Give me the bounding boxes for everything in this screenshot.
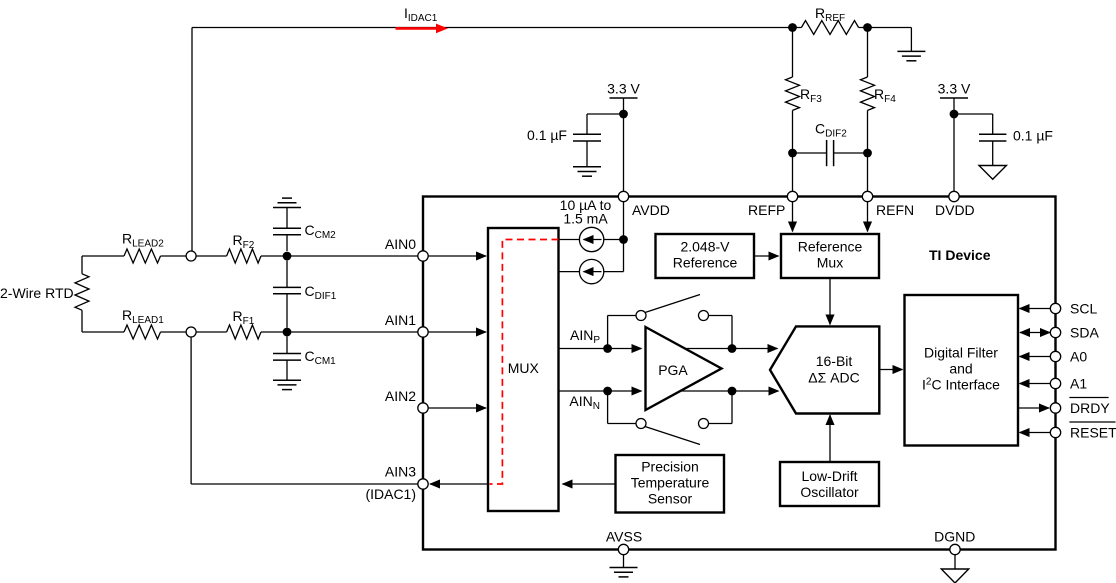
node REFP top junction xyxy=(788,23,797,32)
capacitor C_DIF2 xyxy=(793,152,827,154)
svg-text:A1: A1 xyxy=(1070,375,1087,391)
pin RESET xyxy=(1050,427,1060,437)
svg-text:RF1: RF1 xyxy=(233,308,255,327)
capacitor C_CM1 xyxy=(286,336,288,353)
svg-text:RF3: RF3 xyxy=(800,86,822,105)
wire RESET xyxy=(1020,432,1051,434)
svg-text:AIN3: AIN3 xyxy=(385,463,416,479)
resistor R_F1 xyxy=(227,325,261,339)
wire RF1 to AIN1 pin xyxy=(261,331,418,333)
svg-text:Precision: Precision xyxy=(641,459,699,475)
pin AIN0 xyxy=(418,251,428,261)
wire current sources to AVDD xyxy=(604,239,624,241)
pin AVSS xyxy=(618,544,628,554)
svg-text:16-Bit: 16-Bit xyxy=(816,353,853,369)
arrow reference to refmux xyxy=(755,255,779,257)
svg-text:Low-Drift: Low-Drift xyxy=(801,468,857,484)
pin REFN xyxy=(862,191,872,201)
svg-text:1.5 mA: 1.5 mA xyxy=(563,211,608,227)
svg-text:CDIF2: CDIF2 xyxy=(815,121,847,140)
TI device outline box xyxy=(423,197,1056,550)
svg-text:AINP: AINP xyxy=(570,327,600,346)
wire SDA bidirectional xyxy=(1020,332,1050,334)
pin DGND xyxy=(950,544,960,554)
svg-text:RF4: RF4 xyxy=(874,86,896,105)
wire A1 xyxy=(1020,383,1051,385)
op-amp PGA xyxy=(646,327,722,410)
capacitor C_CM2 xyxy=(286,235,288,251)
resistor R_LEAD1 xyxy=(124,325,161,339)
pin A0 xyxy=(1050,351,1060,361)
svg-text:AINN: AINN xyxy=(569,393,600,412)
node CDIF2 left xyxy=(788,149,797,158)
current source IDAC1 xyxy=(559,239,580,241)
arrow oscillator to ADC xyxy=(829,415,831,462)
node AVDD bypass xyxy=(619,110,628,119)
svg-text:DGND: DGND xyxy=(934,529,975,545)
resistor R_LEAD2 xyxy=(124,249,161,263)
3.3V supply DVDD xyxy=(953,98,955,191)
pin REFP xyxy=(787,191,797,201)
switch bottom-left xyxy=(607,391,609,424)
node CCM2 junction xyxy=(283,252,292,261)
pin AIN2 xyxy=(418,403,428,413)
capacitor C_DIF1 xyxy=(286,260,288,287)
wire MUX AINP to PGA xyxy=(559,348,642,350)
pin AIN1 xyxy=(418,327,428,337)
3.3V supply AVDD xyxy=(623,98,625,114)
wire to top-right ground xyxy=(859,27,912,29)
2-Wire RTD resistor xyxy=(81,256,83,274)
svg-text:Reference: Reference xyxy=(673,255,738,271)
svg-text:REFN: REFN xyxy=(876,202,914,218)
svg-text:TI Device: TI Device xyxy=(929,247,991,263)
wire AIN2 to MUX xyxy=(428,407,486,409)
ground AVDD cap xyxy=(573,166,601,168)
wire RLEAD1 to junction xyxy=(161,331,186,333)
junction node AIN1 ext xyxy=(186,327,196,337)
arrow REFP to Reference Mux xyxy=(792,202,794,232)
resistor R_F4 xyxy=(867,28,869,78)
svg-text:0.1 µF: 0.1 µF xyxy=(527,127,567,143)
svg-text:DVDD: DVDD xyxy=(935,202,975,218)
wire RTD top to RLEAD2 xyxy=(82,255,124,257)
svg-text:(IDAC1): (IDAC1) xyxy=(365,486,416,502)
block Reference Mux xyxy=(781,234,879,278)
arrow sensor to MUX xyxy=(563,483,616,485)
svg-text:AVSS: AVSS xyxy=(606,529,642,545)
svg-text:0.1 µF: 0.1 µF xyxy=(1013,128,1053,144)
svg-text:3.3 V: 3.3 V xyxy=(938,81,971,97)
svg-text:Digital Filter: Digital Filter xyxy=(924,345,998,361)
svg-text:and: and xyxy=(949,361,972,377)
pin SDA xyxy=(1050,327,1060,337)
ground above CCM2 xyxy=(273,207,301,209)
ground AVSS xyxy=(623,555,625,568)
svg-text:I2C Interface: I2C Interface xyxy=(922,377,1000,393)
node CCM1 junction xyxy=(283,328,292,337)
pin DRDY xyxy=(1050,403,1060,413)
block Precision Temperature Sensor xyxy=(616,455,725,513)
ground top-right xyxy=(897,50,925,52)
wire MUX AINN to PGA xyxy=(559,390,642,392)
current source IDAC2 xyxy=(559,271,580,273)
svg-text:Mux: Mux xyxy=(817,255,843,271)
node REFN top junction xyxy=(863,23,872,32)
wire top IDAC1 loop xyxy=(192,27,801,29)
svg-text:Reference: Reference xyxy=(798,239,863,255)
resistor R_F2 xyxy=(227,249,261,263)
svg-text:SCL: SCL xyxy=(1070,300,1097,316)
pin SCL xyxy=(1050,303,1060,313)
svg-text:2-Wire RTD: 2-Wire RTD xyxy=(0,285,74,301)
block Low-Drift Oscillator xyxy=(780,462,879,506)
wire DRDY xyxy=(1018,407,1049,409)
junction node AIN0 ext xyxy=(186,251,196,261)
MUX block xyxy=(488,228,559,511)
capacitor 0.1uF DVDD xyxy=(954,113,993,115)
red current arrow IDAC1 xyxy=(396,27,437,30)
svg-text:PGA: PGA xyxy=(658,362,688,378)
svg-text:A0: A0 xyxy=(1070,348,1087,364)
wire AIN1 to MUX xyxy=(428,331,486,333)
pin AIN3 xyxy=(418,479,428,489)
svg-text:Oscillator: Oscillator xyxy=(800,484,859,500)
svg-text:MUX: MUX xyxy=(508,360,540,376)
node CDIF2 right xyxy=(863,149,872,158)
switch top-right xyxy=(699,311,709,321)
svg-text:SDA: SDA xyxy=(1070,324,1099,340)
svg-text:AIN2: AIN2 xyxy=(385,388,416,404)
block 2.048-V Reference xyxy=(656,234,755,278)
red dashed IDAC1 path inside MUX xyxy=(490,240,559,485)
svg-text:AVDD: AVDD xyxy=(632,202,670,218)
node DVDD bypass xyxy=(950,110,959,119)
arrow REFN to Reference Mux xyxy=(867,202,869,232)
svg-text:3.3 V: 3.3 V xyxy=(607,81,640,97)
svg-text:RLEAD2: RLEAD2 xyxy=(122,231,164,250)
wire AIN1 junction down to AIN3 xyxy=(190,337,192,484)
wire RTD bottom to RLEAD1 xyxy=(82,331,124,333)
svg-text:CCM1: CCM1 xyxy=(305,348,337,367)
wire RF2 to AIN0 pin xyxy=(261,255,418,257)
svg-text:REFP: REFP xyxy=(748,202,785,218)
wire A0 xyxy=(1020,356,1051,358)
svg-text:Temperature: Temperature xyxy=(631,475,710,491)
resistor R_REF xyxy=(801,21,858,35)
svg-text:RREF: RREF xyxy=(815,5,845,24)
wire RLEAD2 to junction xyxy=(161,255,186,257)
pin DVDD xyxy=(949,191,959,201)
ADC 16-bit block xyxy=(770,326,879,413)
svg-text:CCM2: CCM2 xyxy=(305,222,337,241)
svg-text:ΔΣ ADC: ΔΣ ADC xyxy=(808,370,859,386)
switch top-left xyxy=(607,316,609,349)
wire junction to RF1 xyxy=(196,331,226,333)
arrow refmux to ADC xyxy=(829,279,831,325)
svg-text:Sensor: Sensor xyxy=(648,491,693,507)
arrow ADC to digital filter xyxy=(880,369,903,371)
wire AIN0 to MUX xyxy=(428,255,486,257)
block Digital Filter and I2C Interface xyxy=(905,295,1019,446)
svg-text:RF2: RF2 xyxy=(233,232,255,251)
wire PGA out top to ADC xyxy=(685,348,778,350)
capacitor 0.1uF AVDD xyxy=(587,113,624,115)
switch bottom-right xyxy=(699,419,709,429)
resistor R_F3 xyxy=(792,28,794,78)
wire SCL xyxy=(1020,308,1051,310)
triangle ground DVDD cap xyxy=(979,166,1006,180)
svg-text:AIN0: AIN0 xyxy=(385,236,416,252)
pin AVDD xyxy=(618,191,628,201)
triangle ground DGND xyxy=(954,555,956,569)
ground below CCM1 xyxy=(273,379,301,381)
svg-text:2.048-V: 2.048-V xyxy=(680,239,730,255)
pin A1 xyxy=(1050,378,1060,388)
svg-text:RLEAD1: RLEAD1 xyxy=(122,307,164,326)
svg-text:CDIF1: CDIF1 xyxy=(305,283,337,302)
svg-text:AIN1: AIN1 xyxy=(385,312,416,328)
svg-text:IIDAC1: IIDAC1 xyxy=(404,5,438,24)
svg-text:RESET: RESET xyxy=(1070,424,1116,440)
wire junction to RF2 xyxy=(196,255,226,257)
wire MUX to AIN3 (IDAC out) xyxy=(430,483,488,485)
svg-text:DRDY: DRDY xyxy=(1070,400,1110,416)
wire PGA out bottom to ADC xyxy=(680,390,778,392)
